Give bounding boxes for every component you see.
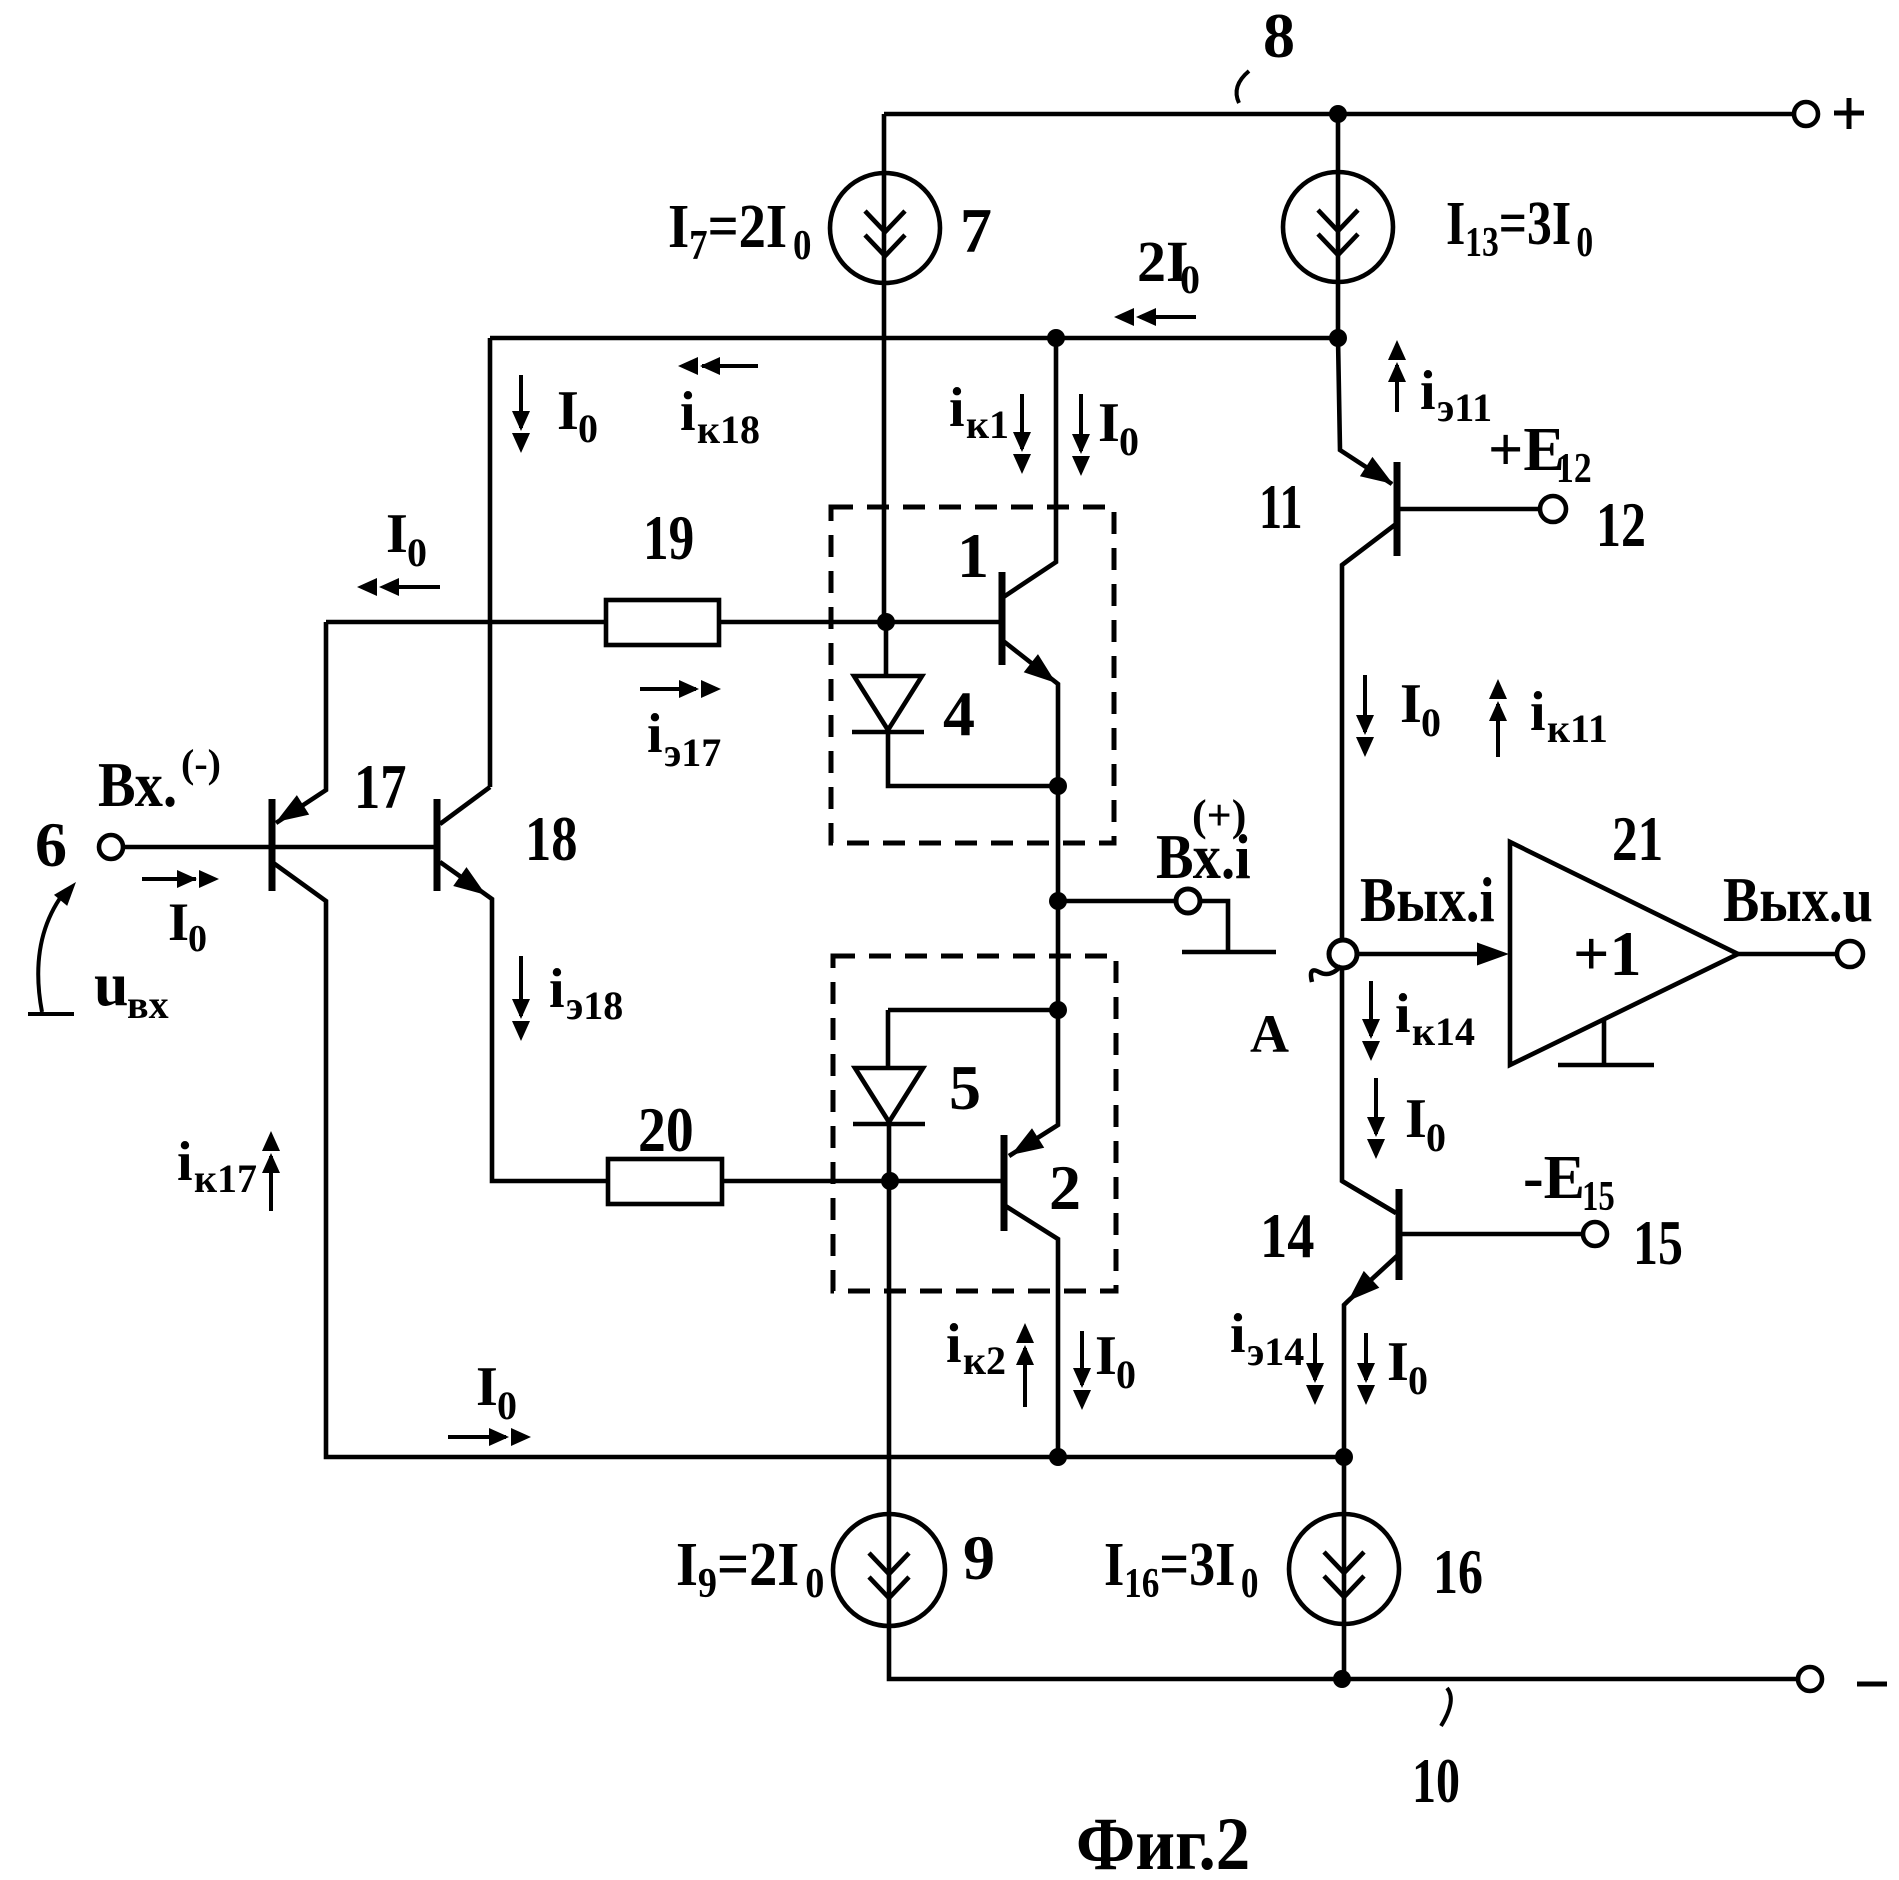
node dot bottom rail left bbox=[1049, 1448, 1067, 1466]
wire base of transistor 14 to terminal 15 bbox=[1399, 1232, 1583, 1237]
svg-text:I: I bbox=[168, 892, 189, 952]
svg-text:0: 0 bbox=[1116, 1352, 1136, 1397]
plus sign bbox=[1834, 98, 1864, 129]
terminal input i circle bbox=[1176, 889, 1200, 913]
svg-text:16: 16 bbox=[1124, 1560, 1159, 1607]
wire base line of transistors 1 (through resistor 19) bbox=[326, 620, 606, 625]
annotation arrow ie11 up bbox=[1388, 340, 1406, 412]
annotation arrow 2I0 left bbox=[1114, 308, 1196, 326]
svg-text:11: 11 bbox=[1259, 472, 1303, 543]
svg-text:2: 2 bbox=[1049, 1152, 1081, 1223]
dashed box around transistor 2 and diode 5 bbox=[833, 956, 1116, 1291]
dashed box around transistor 1 and diode 4 bbox=[831, 507, 1114, 843]
transistor 14 base bar bbox=[1396, 1189, 1403, 1280]
transistor 18 base bar bbox=[434, 799, 441, 891]
svg-text:I: I bbox=[1446, 190, 1465, 258]
node dot minus rail bbox=[1333, 1670, 1351, 1688]
svg-text:I: I bbox=[668, 192, 689, 261]
transistor 17 emitter arrowhead bbox=[270, 795, 309, 832]
svg-text:i: i bbox=[1230, 1303, 1246, 1365]
svg-text:0: 0 bbox=[497, 1383, 517, 1428]
annotation arrow I0 down above transistor 14 bbox=[1367, 1078, 1385, 1159]
wire emitter of transistor 14 down bbox=[1344, 1256, 1397, 1679]
svg-text:i: i bbox=[680, 381, 696, 443]
svg-text:=3I: =3I bbox=[1499, 190, 1571, 258]
svg-text:Вых.i: Вых.i bbox=[1360, 864, 1495, 935]
buffer input arrowhead bbox=[1477, 943, 1509, 966]
svg-text:9: 9 bbox=[698, 1559, 717, 1606]
svg-text:к17: к17 bbox=[194, 1156, 257, 1201]
resistor 20 bbox=[608, 1159, 722, 1204]
annotation arrow ie17 right bbox=[640, 680, 721, 698]
svg-text:(-): (-) bbox=[181, 741, 221, 786]
terminal 15 circle bbox=[1583, 1222, 1607, 1246]
diode 4 bbox=[852, 622, 924, 732]
wire base line of transistor 2 (from resistor 20) bbox=[722, 1179, 1004, 1184]
transistor 11 base bar bbox=[1394, 462, 1401, 556]
wire diode 4 branch bbox=[888, 732, 1058, 786]
wire rail node 3 horizontal bbox=[490, 336, 1338, 341]
terminal output u circle bbox=[1837, 941, 1863, 967]
svg-text:7: 7 bbox=[960, 195, 992, 266]
annotation arrow ie14 down bbox=[1306, 1333, 1324, 1405]
current source 7 bbox=[830, 173, 940, 283]
svg-text:10: 10 bbox=[1412, 1747, 1460, 1817]
svg-text:=3I: =3I bbox=[1159, 1531, 1235, 1599]
wire node A down to collector of transistor 14 bbox=[1342, 967, 1396, 1213]
current source 16 bbox=[1289, 1514, 1399, 1624]
svg-text:0: 0 bbox=[1576, 220, 1593, 266]
svg-text:I: I bbox=[1400, 673, 1422, 735]
svg-text:13: 13 bbox=[1465, 220, 1499, 266]
svg-text:i: i bbox=[949, 377, 965, 439]
svg-text:14: 14 bbox=[1260, 1200, 1314, 1271]
svg-text:к14: к14 bbox=[1412, 1009, 1475, 1054]
node dot emitter 2 bbox=[1049, 1001, 1067, 1019]
transistor 14 collector diagonal bbox=[1342, 1181, 1396, 1213]
svg-text:i: i bbox=[1420, 360, 1436, 422]
svg-text:э11: э11 bbox=[1437, 385, 1492, 430]
svg-text:(+): (+) bbox=[1192, 791, 1246, 840]
annotation arrow I0 right bottom left bbox=[448, 1428, 531, 1446]
terminal plus circle bbox=[1794, 102, 1818, 126]
svg-text:1: 1 bbox=[957, 520, 989, 591]
svg-text:5: 5 bbox=[949, 1052, 981, 1123]
label I7=2I0 bbox=[668, 192, 811, 269]
wire emitter of transistor 18 down to resistor 20 bbox=[440, 862, 608, 1181]
annotation arrow ik14 down bbox=[1362, 981, 1380, 1061]
transistor 18 emitter arrowhead bbox=[453, 867, 492, 904]
wire collector of transistor 1 up to rail bbox=[1002, 338, 1056, 598]
wire current source 7 branch vertical bbox=[882, 114, 887, 622]
transistor 18 collector diagonal bbox=[440, 787, 490, 824]
svg-text:I: I bbox=[1387, 1331, 1409, 1393]
transistor 11 emitter arrowhead bbox=[1360, 457, 1399, 494]
wire current source 13 branch bbox=[1336, 114, 1341, 338]
svg-text:0: 0 bbox=[578, 406, 598, 451]
annotation arrow ik17 up bbox=[262, 1131, 280, 1211]
svg-text:i: i bbox=[549, 958, 565, 1020]
node dot emitter 1 bbox=[1049, 777, 1067, 795]
svg-text:Фиг.2: Фиг.2 bbox=[1076, 1802, 1250, 1880]
svg-text:16: 16 bbox=[1433, 1537, 1483, 1607]
svg-text:I: I bbox=[557, 380, 579, 442]
annotation arrow I0 down near ik18 bbox=[512, 375, 530, 453]
node dot input i bbox=[1049, 892, 1067, 910]
svg-text:э14: э14 bbox=[1247, 1329, 1304, 1374]
svg-text:0: 0 bbox=[1426, 1115, 1446, 1160]
wire base of transistor 11 to terminal 12 bbox=[1397, 507, 1540, 512]
annotation arrow I0 down right of ie14 bbox=[1357, 1333, 1375, 1405]
node dot top rail bbox=[1329, 105, 1347, 123]
annotation arrow ie18 down bbox=[512, 956, 530, 1041]
wire emitter branch of transistor 17 bbox=[276, 622, 326, 823]
wire emitter of transistor 1 down bbox=[1002, 640, 1058, 1010]
svg-text:-E: -E bbox=[1523, 1144, 1585, 1212]
node dot base 2 bbox=[881, 1172, 899, 1190]
wire left collector branch of transistor 18 bbox=[488, 338, 493, 787]
terminal 6 circle bbox=[99, 835, 123, 859]
svg-text:0: 0 bbox=[1241, 1560, 1259, 1607]
terminal minus circle bbox=[1798, 1667, 1822, 1691]
minus sign bbox=[1857, 1682, 1887, 1687]
wire emitter of transistor 11 bbox=[1338, 338, 1392, 484]
tick pointer for node A bbox=[1311, 966, 1341, 982]
diode 5 bbox=[853, 1068, 925, 1124]
svg-text:0: 0 bbox=[1119, 419, 1139, 464]
svg-text:6: 6 bbox=[35, 809, 67, 880]
wire buffer output to terminal bbox=[1738, 952, 1837, 957]
svg-text:i: i bbox=[177, 1131, 193, 1193]
label I16=3I0 bbox=[1104, 1531, 1259, 1607]
svg-text:к2: к2 bbox=[963, 1338, 1006, 1383]
tick pointer for 10 bbox=[1441, 1688, 1451, 1726]
wire collector of transistor 11 down to node A bbox=[1342, 524, 1396, 941]
svg-text:I: I bbox=[476, 1356, 498, 1418]
svg-text:+1: +1 bbox=[1573, 918, 1641, 989]
svg-text:+E: +E bbox=[1488, 416, 1565, 484]
current source 13 bbox=[1283, 172, 1393, 282]
svg-text:I: I bbox=[676, 1530, 698, 1599]
svg-text:21: 21 bbox=[1612, 803, 1663, 875]
svg-text:I: I bbox=[386, 503, 408, 565]
annotation arrow I0 down under transistor 11 bbox=[1356, 675, 1374, 757]
annotation arrow ik11 up bbox=[1489, 679, 1507, 757]
svg-text:к18: к18 bbox=[697, 407, 760, 452]
svg-text:8: 8 bbox=[1263, 0, 1295, 71]
node dot base 1 bbox=[877, 613, 895, 631]
annotation arrow ik2 up bbox=[1016, 1323, 1034, 1407]
svg-text:12: 12 bbox=[1596, 490, 1646, 560]
buffer ground symbol bbox=[1558, 1018, 1654, 1065]
wire collector of transistor 2 down bbox=[1004, 1205, 1058, 1457]
svg-text:i: i bbox=[647, 703, 663, 765]
label I9=2I0 bbox=[676, 1530, 824, 1607]
svg-text:э18: э18 bbox=[566, 983, 623, 1028]
svg-text:э17: э17 bbox=[664, 730, 721, 775]
svg-text:вх: вх bbox=[127, 982, 169, 1027]
wire diode 5 cathode down through current source 9 bbox=[889, 1124, 1797, 1679]
svg-text:=2I: =2I bbox=[708, 192, 788, 261]
wire emitter of transistor 2 bbox=[1009, 1010, 1058, 1156]
svg-text:=2I: =2I bbox=[717, 1530, 799, 1599]
svg-text:u: u bbox=[94, 951, 128, 1019]
svg-text:I: I bbox=[1405, 1088, 1427, 1150]
svg-text:к11: к11 bbox=[1547, 706, 1608, 751]
svg-text:0: 0 bbox=[1180, 257, 1200, 302]
annotation arrow ik1 down bbox=[1013, 394, 1031, 474]
svg-text:0: 0 bbox=[793, 222, 811, 269]
wire stub bar under input i terminal bbox=[1182, 950, 1276, 955]
svg-text:15: 15 bbox=[1633, 1208, 1683, 1278]
svg-text:18: 18 bbox=[525, 803, 577, 874]
svg-text:15: 15 bbox=[1582, 1173, 1615, 1220]
annotation arrow I0 right at input bbox=[142, 870, 219, 888]
svg-text:17: 17 bbox=[354, 751, 406, 822]
current source 9 bbox=[833, 1514, 945, 1626]
transistor 17 base bar bbox=[269, 799, 276, 891]
svg-text:I: I bbox=[1104, 1531, 1124, 1599]
wire input base line transistors 17 18 bbox=[124, 845, 437, 850]
svg-text:А: А bbox=[1250, 1004, 1289, 1064]
svg-text:Вх.: Вх. bbox=[98, 750, 177, 821]
wire diode 5 branch top bbox=[888, 1008, 1058, 1013]
tick pointer for 8 bbox=[1237, 71, 1249, 103]
svg-text:i: i bbox=[1530, 681, 1546, 743]
wire collector of transistor 17 down to bottom node rail bbox=[272, 862, 1344, 1457]
svg-text:20: 20 bbox=[638, 1094, 694, 1164]
wire input i terminal bbox=[1058, 899, 1176, 904]
buffer amplifier 21 triangle bbox=[1510, 842, 1738, 1065]
annotation arrow I0 down right of ik1 bbox=[1072, 394, 1090, 476]
transistor 1 base bar bbox=[999, 572, 1006, 665]
wire top positive rail 8 bbox=[884, 112, 1794, 117]
svg-text:0: 0 bbox=[805, 1559, 824, 1606]
node dot rail3 left bbox=[1047, 329, 1065, 347]
annotation arrow I0 down right of ik2 bbox=[1073, 1331, 1091, 1410]
svg-text:19: 19 bbox=[643, 502, 694, 574]
svg-text:к1: к1 bbox=[966, 402, 1009, 447]
label I13=3I0 bbox=[1446, 190, 1593, 266]
node dot rail3 right bbox=[1329, 329, 1347, 347]
transistor 1 emitter arrowhead bbox=[1024, 654, 1063, 692]
resistor 19 bbox=[606, 600, 719, 645]
input voltage source arc with arrowhead bbox=[28, 890, 74, 1014]
svg-text:I: I bbox=[1098, 392, 1120, 454]
svg-text:I: I bbox=[1095, 1325, 1117, 1387]
svg-text:0: 0 bbox=[188, 918, 207, 960]
terminal 12 circle bbox=[1540, 496, 1566, 522]
transistor 2 emitter arrowhead bbox=[1005, 1128, 1044, 1164]
node A circle (output i) bbox=[1329, 940, 1357, 968]
svg-text:4: 4 bbox=[943, 678, 975, 749]
annotation arrow ik18 left bbox=[678, 357, 758, 375]
svg-text:Вых.u: Вых.u bbox=[1723, 864, 1873, 935]
svg-text:i: i bbox=[1395, 983, 1411, 1045]
svg-text:9: 9 bbox=[963, 1522, 995, 1593]
svg-text:0: 0 bbox=[1408, 1358, 1428, 1403]
wire buffer input bbox=[1356, 952, 1500, 957]
svg-text:i: i bbox=[946, 1313, 962, 1375]
svg-text:0: 0 bbox=[1421, 700, 1441, 745]
svg-text:7: 7 bbox=[689, 222, 707, 269]
svg-text:0: 0 bbox=[407, 530, 427, 575]
transistor 2 base bar bbox=[1001, 1135, 1008, 1231]
svg-text:12: 12 bbox=[1556, 445, 1592, 491]
node dot bottom rail right bbox=[1335, 1448, 1353, 1466]
annotation arrow I0 left near resistor 19 bbox=[357, 578, 440, 596]
transistor 14 emitter arrowhead bbox=[1340, 1271, 1379, 1310]
